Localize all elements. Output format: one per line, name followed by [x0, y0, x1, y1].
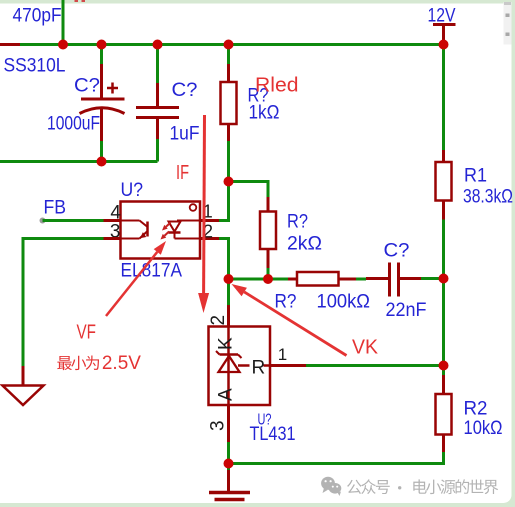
svg-text:R?: R? [287, 212, 308, 233]
resistor Rled R? 1kOhm [227, 45, 230, 65]
opto LED emission arrows [166, 223, 170, 227]
opto LED [177, 220, 200, 222]
scrollbar fragment top-right [504, 2, 512, 45]
ground (left, open triangle) [22, 366, 25, 386]
svg-text:C?: C? [172, 80, 198, 101]
svg-text:10kΩ: 10kΩ [464, 418, 503, 439]
svg-text:FB: FB [44, 198, 67, 219]
wire: node to optocoupler pin 1 [227, 182, 230, 223]
wire: 470pF branch up from node [62, 0, 65, 46]
annotation arrow IF current [202, 115, 206, 293]
wire: optocoupler pin 2 to cathode node [200, 237, 219, 240]
svg-text:12V: 12V [428, 6, 456, 27]
svg-text:VK: VK [352, 337, 379, 359]
svg-text:1000uF: 1000uF [47, 114, 100, 135]
svg-text:SS310L: SS310L [4, 56, 66, 77]
svg-text:2: 2 [208, 315, 229, 326]
svg-text:1uF: 1uF [170, 124, 200, 145]
svg-text:470pF: 470pF [13, 6, 62, 27]
capacitor C? 1uF [156, 45, 159, 84]
annotation min 2.5V [57, 356, 71, 370]
junction dots [58, 40, 68, 50]
wire: bottom rail [227, 462, 444, 465]
watermark wechat icon [321, 477, 341, 496]
wire: diode pin stub at left edge [0, 43, 22, 46]
watermark text [347, 480, 362, 494]
wire: anode node to 2k resistor [229, 180, 270, 183]
svg-text:R2: R2 [464, 399, 488, 420]
svg-text:EL817A: EL817A [121, 261, 183, 282]
svg-text:Rled: Rled [255, 75, 299, 97]
resistor R? 2kOhm [267, 180, 270, 197]
svg-text:A: A [216, 388, 237, 401]
svg-text:1kΩ: 1kΩ [249, 103, 280, 124]
svg-text:R?: R? [275, 292, 297, 313]
wire: right rail mid [442, 220, 445, 376]
svg-text:TL431: TL431 [250, 424, 296, 445]
svg-text:C?: C? [74, 76, 100, 97]
wire: top 12V rail [20, 43, 444, 46]
cropped red text remnant top edge [75, 0, 79, 2]
resistor R2 10kOhm [442, 375, 445, 394]
ground (bottom, earth) [227, 464, 230, 471]
wire: TL431 cathode branch [227, 279, 230, 305]
svg-text:22nF: 22nF [386, 300, 427, 321]
svg-text:3: 3 [208, 420, 229, 431]
svg-text:VF: VF [77, 322, 97, 344]
svg-text:C?: C? [384, 241, 410, 262]
resistor R1 38.3kOhm [442, 45, 445, 151]
svg-text:38.3kΩ: 38.3kΩ [463, 187, 513, 208]
opto phototransistor [121, 220, 140, 222]
wire: TL431 ref to divider [270, 364, 306, 367]
shunt regulator U? TL431 [209, 327, 271, 406]
annotation arrow VF [106, 252, 157, 316]
svg-text:R: R [252, 358, 266, 379]
svg-text:K: K [216, 337, 237, 350]
wire: cathode node row [229, 278, 290, 281]
capacitor C? 1000uF polarized [100, 45, 103, 65]
svg-text:2kΩ: 2kΩ [287, 234, 322, 255]
wire: TL431 anode down [227, 405, 230, 442]
svg-text:R1: R1 [464, 166, 487, 187]
wire: pin3 to left gnd [23, 237, 104, 240]
capacitor C? 22nF [366, 277, 388, 280]
pin FB [40, 218, 46, 224]
optocoupler U? EL817A [121, 202, 201, 259]
resistor R? 100kOhm [288, 278, 297, 281]
annotation arrow VK [244, 292, 346, 356]
svg-text:U?: U? [121, 180, 144, 201]
svg-text:100kΩ: 100kΩ [317, 292, 371, 313]
wire: bottom-left rail [0, 160, 158, 163]
svg-text:2.5V: 2.5V [102, 353, 141, 374]
power symbol 12V [433, 23, 456, 26]
svg-text:1: 1 [278, 345, 287, 364]
svg-text:IF: IF [176, 162, 189, 184]
